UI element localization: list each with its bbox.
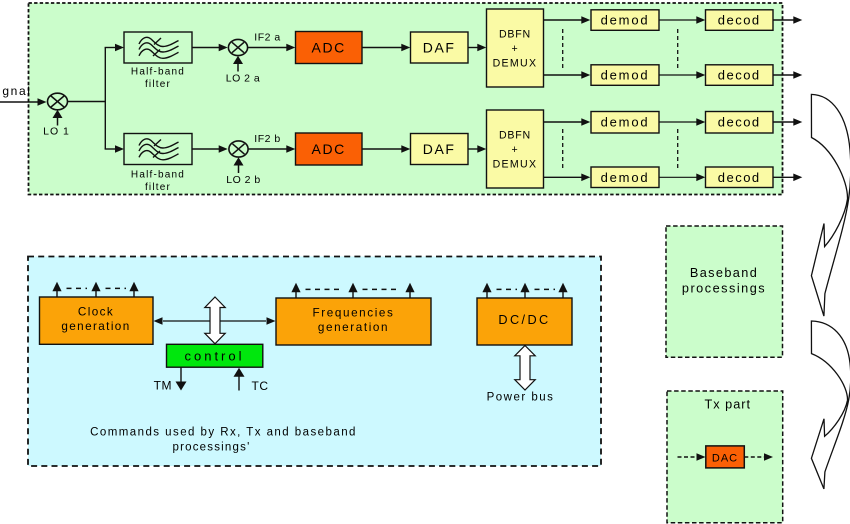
hollow power bus double arrow — [515, 346, 535, 391]
wire decod 3 output — [773, 121, 794, 123]
svg-text:Frequencies: Frequencies — [313, 307, 395, 320]
svg-text:+: + — [512, 43, 519, 55]
svg-text:decod: decod — [718, 115, 761, 130]
svg-text:decod: decod — [718, 68, 761, 83]
svg-text:gnal: gnal — [2, 84, 31, 98]
svg-text:ADC: ADC — [312, 40, 346, 56]
svg-text:processings: processings — [682, 281, 766, 295]
dashed ellipsis line 2b — [677, 129, 679, 170]
wire DBFN b to demod 4 — [544, 176, 582, 178]
box clock generation — [40, 297, 154, 344]
box DAF b — [411, 134, 469, 165]
svg-text:demod: demod — [601, 68, 650, 83]
box control — [167, 344, 263, 367]
svg-text:demod: demod — [601, 115, 650, 130]
svg-text:TM: TM — [154, 379, 172, 393]
svg-text:Clock: Clock — [78, 306, 114, 319]
wire input to mixer LO1 — [0, 101, 38, 103]
box DAF a — [411, 32, 469, 63]
wire demod 2 to decod 2 — [659, 74, 697, 76]
mixer M2b — [229, 141, 248, 157]
svg-text:DAF: DAF — [423, 141, 456, 157]
svg-text:Commands used by Rx, Tx and ba: Commands used by Rx, Tx and baseband — [90, 427, 357, 439]
box DBFN DEMUX a — [487, 9, 544, 87]
svg-text:DC/DC: DC/DC — [498, 313, 550, 327]
svg-text:LO 1: LO 1 — [43, 126, 70, 138]
svg-text:control: control — [184, 349, 244, 364]
box DC/DC — [477, 298, 572, 345]
svg-text:generation: generation — [61, 320, 130, 333]
svg-text:IF2 a: IF2 a — [254, 32, 280, 44]
wire filter a to mixer 2a — [192, 47, 219, 49]
svg-text:Tx part: Tx part — [705, 398, 751, 412]
wire decod 1 output — [773, 19, 794, 21]
svg-text:ADC: ADC — [312, 141, 346, 157]
wire decod 2 output — [773, 74, 794, 76]
svg-text:demod: demod — [601, 170, 650, 185]
filter F2 half-band — [124, 134, 192, 165]
svg-text:demod: demod — [601, 13, 650, 28]
wire filter b to mixer 2b — [192, 148, 219, 150]
svg-text:LO 2 b: LO 2 b — [226, 174, 261, 186]
wire DAF a to DBFN a — [468, 47, 478, 49]
wire mixer 2a to ADC a — [248, 47, 287, 49]
box frequencies generation — [276, 298, 431, 345]
wire clock-frequencies double arrow — [163, 320, 266, 322]
mixer M1 — [48, 93, 68, 110]
wire TM arrow — [180, 367, 182, 382]
hollow vertical double arrow control — [205, 297, 225, 344]
commands panel background — [28, 257, 601, 467]
wire decod 4 output — [773, 176, 794, 178]
svg-text:DEMUX: DEMUX — [493, 58, 538, 70]
dashed ellipsis line 1b — [562, 129, 564, 170]
Rx panel background — [29, 3, 783, 195]
svg-text:DBFN: DBFN — [499, 130, 531, 142]
svg-text:filter: filter — [145, 182, 171, 193]
svg-text:DEMUX: DEMUX — [493, 159, 538, 171]
box decod 4 — [706, 167, 774, 188]
box ADC b — [296, 133, 363, 165]
svg-text:DAF: DAF — [423, 40, 456, 56]
wire branch vertical — [104, 48, 106, 150]
wire LO2a arrow — [237, 63, 239, 72]
wire ADC b to DAF b — [362, 148, 402, 150]
wire LO1 arrow — [57, 117, 59, 126]
box decod 2 — [706, 65, 774, 86]
wire mixer 2b to ADC b — [248, 148, 286, 150]
wire demod 4 to decod 4 — [659, 176, 697, 178]
wire LO2b arrow — [238, 165, 240, 174]
wire demod 1 to decod 1 — [659, 19, 697, 21]
svg-text:processings': processings' — [173, 442, 251, 454]
svg-text:Baseband: Baseband — [690, 266, 758, 280]
svg-text:DBFN: DBFN — [499, 29, 531, 41]
svg-text:LO 2 a: LO 2 a — [226, 73, 261, 85]
wire branch to filter a — [105, 47, 116, 49]
wire ADC a to DAF a — [362, 47, 402, 49]
svg-text:generation: generation — [318, 321, 389, 334]
svg-text:Half-band: Half-band — [131, 67, 185, 78]
wire DBFN a to demod 2 — [544, 74, 582, 76]
svg-text:Power bus: Power bus — [487, 392, 555, 404]
frequencies up arrows — [291, 283, 414, 298]
box demod 3 — [591, 112, 659, 134]
DC/DC up arrows — [482, 283, 567, 298]
box Tx part — [667, 391, 783, 523]
clock up arrows — [52, 282, 138, 297]
wire dashed out of DAC — [744, 456, 764, 458]
dashed ellipsis line 1a — [562, 29, 564, 68]
svg-text:decod: decod — [718, 170, 761, 185]
svg-text:+: + — [512, 144, 519, 156]
curved arrow 2 — [811, 321, 850, 489]
svg-text:filter: filter — [145, 79, 171, 90]
svg-text:DAC: DAC — [712, 453, 738, 465]
box demod 1 — [591, 10, 659, 31]
box decod 1 — [706, 10, 774, 31]
box demod 4 — [591, 167, 659, 188]
box DAC — [706, 446, 745, 468]
svg-text:IF2 b: IF2 b — [254, 133, 280, 145]
wire dashed into DAC — [678, 456, 698, 458]
dashed ellipsis line 2a — [677, 29, 679, 68]
wire branch to filter b — [105, 148, 116, 150]
wire DAF b to DBFN b — [468, 148, 478, 150]
wire mixer to branch — [68, 101, 106, 103]
wire DBFN a to demod 1 — [544, 19, 582, 21]
box ADC a — [296, 32, 363, 64]
mixer M2a — [228, 39, 247, 55]
box baseband processings — [666, 226, 783, 357]
filter F1 half-band — [124, 32, 192, 63]
wire demod 3 to decod 3 — [659, 121, 697, 123]
svg-text:decod: decod — [718, 13, 761, 28]
box decod 3 — [706, 112, 774, 134]
wire TC arrow — [238, 377, 240, 391]
curved arrow 1 — [811, 94, 850, 316]
svg-text:Half-band: Half-band — [131, 170, 185, 181]
box demod 2 — [591, 65, 659, 86]
box DBFN DEMUX b — [487, 110, 544, 188]
svg-text:TC: TC — [252, 379, 269, 393]
wire DBFN b to demod 3 — [544, 121, 582, 123]
